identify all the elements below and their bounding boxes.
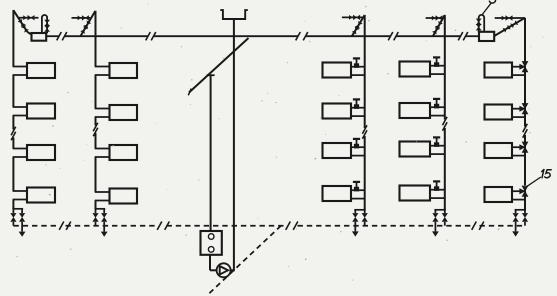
- supply stub to radiator R41: [430, 65, 445, 67]
- riser St2 segment with break: [95, 117, 97, 149]
- supply stub to radiator R11: [13, 66, 27, 68]
- radiator R44: [400, 186, 431, 201]
- valve V5d on loop A5 left leg: [476, 19, 482, 25]
- air vent line with arrow at St5: [495, 16, 525, 21]
- riser St1 to foot header: [12, 200, 14, 209]
- valve V1b on St1 diagonal: [21, 25, 29, 33]
- foot left branch St5 (drain): [515, 210, 517, 232]
- break marks on return main (left-center): [157, 222, 169, 230]
- riser St4 lower segment: [444, 128, 446, 210]
- return pipe to boiler (dashed diagonal): [208, 226, 282, 295]
- riser St1 segment below R11: [12, 75, 14, 107]
- break marks on riser St4: [443, 117, 448, 131]
- pipe break marks on main (left of center): [146, 32, 156, 40]
- riser St1 segment with break: [12, 116, 14, 149]
- return stub from radiator R42: [430, 115, 445, 117]
- pipe break marks on main (left of box A5): [458, 32, 468, 40]
- supply stub to radiator R53: [512, 146, 525, 148]
- valve V1e on loop A1 right leg: [44, 25, 50, 31]
- drain arrow St1: [19, 232, 26, 237]
- air vent line with arrow at St4: [426, 16, 444, 21]
- foot header bar St5: [515, 209, 526, 211]
- siphon loop over box A5: [479, 15, 485, 32]
- foot valve on right branch St5: [522, 213, 528, 222]
- air vent line with flow arrow at St1: [18, 15, 38, 20]
- valve V3b on St3 diagonal: [352, 26, 360, 34]
- riser St5 lower segment: [524, 135, 526, 210]
- radiator R34: [323, 186, 352, 201]
- radiator R21: [110, 63, 138, 78]
- circulation pump P1: [217, 263, 231, 277]
- control valve on R33 supply: [353, 139, 360, 149]
- riser St3 lower segment: [364, 136, 366, 210]
- valve V1d on loop A1 right leg: [44, 20, 50, 26]
- valve V5c on St5 vent line: [506, 15, 513, 20]
- return stub from radiator R41: [430, 73, 445, 75]
- radiator R33: [323, 143, 352, 158]
- return stub from radiator R52: [512, 116, 525, 118]
- air diagonal at St3: [352, 15, 365, 36]
- foot valve on left branch St4: [432, 213, 438, 222]
- return stub from radiator R54: [512, 199, 525, 201]
- radiator R43: [400, 142, 431, 157]
- three-way valve 15 on R53 supply: [519, 142, 528, 153]
- air collector box A1: [32, 33, 47, 41]
- drop pipe to elevator box: [210, 75, 212, 231]
- radiator R11: [27, 63, 55, 78]
- radiator R53: [485, 143, 513, 158]
- break marks on riser St3: [362, 125, 367, 138]
- air vent line with arrow at St2: [72, 16, 91, 21]
- return stub from radiator R51: [512, 74, 525, 76]
- valve V3c on St3 vent line: [353, 15, 360, 20]
- supply stub to radiator R24: [95, 191, 110, 193]
- return stub from radiator R31: [351, 74, 365, 76]
- foot valve on right branch St1: [19, 213, 25, 222]
- foot header bar St3: [354, 209, 365, 211]
- label 5 leader line: [482, 3, 491, 15]
- supply stub to radiator R31: [351, 66, 365, 68]
- riser St4 top above main: [444, 15, 446, 36]
- air-line diagonal from riser St1 peak: [13, 10, 32, 35]
- foot header bar St2: [95, 208, 106, 210]
- return stub from radiator R23: [95, 156, 110, 158]
- return stub from radiator R21: [95, 74, 110, 76]
- air collector box A5: [479, 32, 494, 41]
- radiator R23: [110, 145, 138, 160]
- drain arrow St4: [432, 231, 439, 236]
- tick bar where drop pipe meets diagonal: [207, 74, 215, 76]
- radiator R51: [485, 63, 513, 78]
- foot valve on right branch St3: [362, 213, 368, 222]
- riser St3 top above main: [364, 15, 366, 36]
- riser St5 top peak: [524, 18, 526, 67]
- control valve on R34 supply: [353, 182, 360, 192]
- label 15 leader line: [526, 177, 541, 187]
- foot left branch St4 (drain): [434, 210, 436, 232]
- riser St2 to foot header: [95, 201, 97, 209]
- riser St1 segment below R13: [12, 157, 14, 191]
- three-way valve 15 on R52 supply: [519, 103, 528, 114]
- air vent line with arrow at St3: [342, 15, 363, 20]
- return stub from radiator R11: [13, 74, 27, 76]
- return stub from radiator R53: [512, 155, 525, 157]
- air diagonal at St4: [433, 15, 445, 36]
- riser St2 from main to R21: [95, 36, 97, 66]
- supply stub to radiator R12: [13, 106, 27, 108]
- return main pipe (dashed): [13, 225, 525, 227]
- supply stub to radiator R23: [95, 148, 110, 150]
- riser St4 upper segment: [444, 36, 446, 119]
- valve V5e on loop A5 left leg: [476, 24, 482, 30]
- return stub from radiator R13: [13, 156, 27, 158]
- valve V4b on St4 diagonal: [432, 26, 440, 34]
- radiator R31: [323, 63, 352, 78]
- supply stub to radiator R54: [512, 190, 525, 192]
- break marks on return main (right): [472, 222, 484, 230]
- radiator R42: [400, 103, 431, 118]
- foot left branch St3 (drain): [354, 210, 356, 232]
- riser St2 segment below R23: [95, 157, 97, 192]
- return stub from radiator R14: [13, 199, 27, 201]
- radiator R52: [485, 105, 513, 120]
- foot right branch St4: [444, 210, 446, 226]
- control valve on R43 supply: [433, 137, 440, 147]
- tick at end of center diagonal: [188, 89, 191, 96]
- valve V4a on St4 diagonal: [435, 21, 443, 29]
- return stub from radiator R32: [351, 115, 365, 117]
- foot valve on left branch St2: [92, 213, 98, 222]
- label 5 (clipped at top edge): [489, 0, 495, 3]
- supply stub to radiator R21: [95, 66, 110, 68]
- foot left branch St2: [95, 209, 97, 226]
- return stub from radiator R44: [430, 197, 445, 199]
- drain arrow St5: [512, 231, 519, 236]
- supply stub to radiator R43: [430, 145, 445, 147]
- radiator R41: [400, 62, 431, 77]
- expansion tank (open-top U) at top center: [220, 10, 248, 19]
- riser St2 top above main: [95, 11, 97, 36]
- supply stub to radiator R52: [512, 108, 525, 110]
- radiator R24: [110, 189, 138, 204]
- riser St1 top peak and vertical (left riser): [12, 10, 14, 67]
- control valve on R32 supply: [353, 99, 360, 109]
- siphon loop over box A1: [42, 15, 47, 33]
- gauge circle lower: [208, 247, 214, 253]
- foot valve on left branch St1: [10, 213, 16, 222]
- foot right branch St3: [364, 210, 366, 226]
- break marks on return main (right-center): [286, 222, 298, 230]
- control valve on R44 supply: [433, 181, 440, 191]
- foot header bar St4: [434, 209, 445, 211]
- supply stub to radiator R44: [430, 189, 445, 191]
- foot valve on left branch St5: [513, 213, 519, 222]
- valve V2c on St2 vent line: [82, 15, 89, 20]
- foot valve on left branch St3: [352, 213, 358, 222]
- foot left branch St1: [12, 209, 14, 226]
- supply pipe diagonal (cut) at center: [189, 38, 249, 93]
- control valve on R41 supply: [433, 57, 440, 67]
- radiator R32: [323, 104, 352, 119]
- radiator R14: [27, 188, 55, 203]
- return stub from radiator R24: [95, 200, 110, 202]
- supply stub to radiator R13: [13, 148, 27, 150]
- valve V3a on St3 diagonal: [355, 21, 363, 29]
- return stub from radiator R22: [95, 116, 110, 118]
- pipe break marks on main (left of St2): [57, 32, 67, 40]
- supply stub to radiator R33: [351, 146, 365, 148]
- valve V4c on St4 vent line: [436, 15, 443, 20]
- valve V2b on St2 diagonal: [80, 26, 88, 34]
- pipe break marks on main (right of center): [296, 32, 308, 40]
- return stub from radiator R34: [351, 198, 365, 200]
- supply stub to radiator R51: [512, 66, 525, 68]
- pipe from elevator box to pump inlet: [210, 255, 217, 270]
- valve V1a on St1 diagonal: [18, 19, 26, 27]
- gauge circle upper: [208, 234, 214, 240]
- three-way valve 15 on R54 supply: [519, 186, 528, 197]
- main supply pipe (top horizontal): [46, 35, 479, 37]
- valve V1c on air vent line: [28, 15, 35, 20]
- supply stub to radiator R32: [351, 107, 365, 109]
- valve V5a on St5 diagonal: [510, 20, 518, 28]
- foot right branch St1 (drain): [21, 209, 23, 232]
- riser St3 upper segment: [364, 36, 366, 128]
- control valve on R31 supply: [353, 58, 360, 68]
- return stub from radiator R43: [430, 153, 445, 155]
- radiator R22: [110, 105, 138, 120]
- foot header bar St1: [12, 208, 23, 210]
- radiator R13: [27, 145, 55, 160]
- break marks on riser St1: [11, 127, 16, 140]
- riser St5 upper segment: [524, 67, 526, 127]
- foot right branch St2 (drain): [103, 209, 105, 232]
- control valve on R42 supply: [433, 99, 440, 109]
- label 15: [542, 170, 552, 178]
- break marks on riser St5: [523, 124, 528, 138]
- valve V5b on St5 diagonal: [503, 25, 511, 33]
- supply stub to radiator R14: [13, 190, 27, 192]
- drain arrow St3: [352, 231, 359, 236]
- valve V2a on St2 diagonal: [83, 20, 91, 28]
- break marks on return main (left): [59, 222, 71, 230]
- supply stub to radiator R34: [351, 189, 365, 191]
- foot valve on right branch St2: [101, 213, 107, 222]
- drain arrow St2: [101, 232, 108, 237]
- pipe break marks on main (right of St3): [388, 32, 398, 40]
- return stub from radiator R12: [13, 115, 27, 117]
- radiator R54: [485, 187, 513, 202]
- supply stub to radiator R42: [430, 106, 445, 108]
- supply stub to radiator R22: [95, 108, 110, 110]
- elevator box with gauges: [201, 231, 222, 255]
- radiator R12: [27, 104, 55, 119]
- main vertical riser (hot supply) from tank to pump: [233, 19, 235, 270]
- three-way valve 15 on R51 supply: [519, 61, 528, 72]
- air diagonal from box A5 to St5 peak: [494, 18, 525, 36]
- air diagonal at St2: [80, 11, 95, 36]
- break marks on riser St2: [93, 123, 98, 136]
- pump outlet to main riser: [231, 269, 235, 271]
- riser St2 segment below R21: [95, 75, 97, 109]
- foot valve on right branch St4: [442, 213, 448, 222]
- return stub from radiator R33: [351, 155, 365, 157]
- foot right branch St5: [524, 210, 526, 226]
